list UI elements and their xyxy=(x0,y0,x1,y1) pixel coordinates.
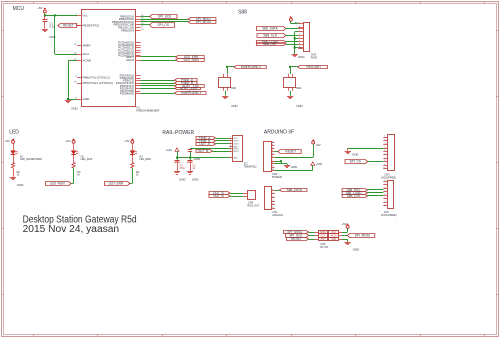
svg-text:GND: GND xyxy=(71,107,77,111)
ground at CN3 xyxy=(345,152,359,157)
svg-text:+VIN: +VIN xyxy=(316,162,323,166)
net flag SPI_MOSI xyxy=(141,20,216,24)
svg-text:6: 6 xyxy=(272,156,273,158)
svg-text:POWER: POWER xyxy=(272,175,282,179)
net flag ADPT_RXD xyxy=(141,87,201,91)
wire gnd to CN3 xyxy=(348,148,384,151)
net flag S88_CLK at CN7 xyxy=(342,194,383,198)
svg-text:Vcc: Vcc xyxy=(83,13,89,17)
svg-text:GND: GND xyxy=(83,97,91,101)
svg-text:ATMEGA48/88/168P: ATMEGA48/88/168P xyxy=(136,110,159,113)
svg-text:GND: GND xyxy=(353,248,359,252)
wire S88 ground bus xyxy=(295,32,299,55)
svg-text:RESET: RESET xyxy=(291,237,302,241)
connector CN5 ISP 6P header xyxy=(315,231,342,250)
svg-text:GND: GND xyxy=(231,104,237,108)
svg-text:PB6(XTAL1/TOSC1): PB6(XTAL1/TOSC1) xyxy=(83,76,110,80)
wire CN2 gnd xyxy=(275,160,288,165)
svg-text:LED_MAINPOWER: LED_MAINPOWER xyxy=(20,158,42,161)
svg-text:OUT_A: OUT_A xyxy=(199,142,211,146)
net flag RESET at CN5 xyxy=(287,237,315,241)
svg-text:VCC: VCC xyxy=(233,138,238,140)
svg-text:7: 7 xyxy=(230,156,231,158)
+12V supply xyxy=(165,148,179,152)
net flag OUT_A at IC2 xyxy=(196,142,230,146)
svg-text:S88_DATA: S88_DATA xyxy=(287,188,303,192)
svg-text:LED_RUN: LED_RUN xyxy=(81,158,93,161)
svg-text:1: 1 xyxy=(272,142,273,144)
svg-text:GND: GND xyxy=(296,104,302,108)
GND label on rail xyxy=(194,157,200,161)
svg-text:3: 3 xyxy=(272,196,273,198)
svg-text:PB0(ICP): PB0(ICP) xyxy=(121,28,134,32)
svg-text:9: 9 xyxy=(384,164,385,166)
net flag ADPT_TXD xyxy=(141,84,205,88)
ground at CN2 xyxy=(284,165,298,169)
svg-text:4: 4 xyxy=(384,147,385,149)
node junction rail a xyxy=(176,157,178,159)
wire IC2 gnd pin down xyxy=(190,148,230,149)
net flag SPI_SCK xyxy=(141,15,177,19)
LED D3 chain with resistor R4 and net flag LED_ERR xyxy=(104,138,151,185)
section title RAIL-POWER xyxy=(162,130,194,136)
svg-text:RESET/PC6: RESET/PC6 xyxy=(83,24,100,28)
section title S88 xyxy=(238,10,247,16)
svg-text:SPI_CS: SPI_CS xyxy=(158,23,169,27)
net flag SPI_CS at CN3 xyxy=(345,160,383,164)
svg-text:ADPT_RXD: ADPT_RXD xyxy=(180,87,198,91)
svg-text:2: 2 xyxy=(272,193,273,195)
svg-text:RAIL-OUT: RAIL-OUT xyxy=(247,204,260,208)
svg-text:+5V: +5V xyxy=(124,139,129,143)
net flag S88_CLK xyxy=(257,34,298,38)
svg-text:2: 2 xyxy=(230,140,231,142)
svg-text:+12V: +12V xyxy=(165,148,172,152)
svg-text:2: 2 xyxy=(272,145,273,147)
svg-text:AGND: AGND xyxy=(83,59,93,63)
svg-text:RESTART: RESTART xyxy=(306,65,321,69)
svg-text:GND: GND xyxy=(194,157,200,161)
svg-text:OUT_B: OUT_B xyxy=(198,149,209,153)
svg-text:2: 2 xyxy=(384,184,385,186)
svg-text:0.1u: 0.1u xyxy=(50,24,56,28)
svg-text:3: 3 xyxy=(230,142,231,144)
svg-text:GND: GND xyxy=(192,178,198,182)
net flag OUT_B at IC2 xyxy=(196,149,230,153)
ground at CN4 xyxy=(292,55,305,60)
svg-text:OUT2: OUT2 xyxy=(233,144,239,146)
svg-text:6P-CN: 6P-CN xyxy=(320,245,328,249)
ground at CN5 xyxy=(344,243,359,252)
net flag OUT_A at CN6 xyxy=(209,191,243,195)
svg-text:+5V: +5V xyxy=(5,139,10,143)
svg-text:6: 6 xyxy=(384,198,385,200)
title text line 2 xyxy=(23,224,120,235)
svg-text:OUT3: OUT3 xyxy=(233,148,239,150)
svg-text:LED: LED xyxy=(9,130,19,136)
svg-text:PD0(RXD): PD0(RXD) xyxy=(120,92,134,96)
svg-text:1: 1 xyxy=(384,136,385,138)
IC1 right pins PD group xyxy=(116,73,141,95)
svg-text:1: 1 xyxy=(230,137,231,139)
svg-text:GND: GND xyxy=(352,152,358,156)
net flag SPI_SCK at CN5 xyxy=(286,234,315,238)
capacitor C3 xyxy=(188,150,192,158)
svg-text:RJ45: RJ45 xyxy=(311,55,318,59)
net flag S88_DATA xyxy=(256,27,298,31)
svg-text:RST: RST xyxy=(321,238,326,241)
capacitor C1 xyxy=(42,15,55,28)
svg-text:6: 6 xyxy=(299,37,300,39)
svg-text:1: 1 xyxy=(384,180,385,182)
svg-text:ANALOG: ANALOG xyxy=(272,213,283,217)
wire +12V rail xyxy=(177,151,230,157)
net flag SPI_MOSI at CN5 xyxy=(342,234,375,238)
svg-text:PB7(XTAL2 w/TOSC2): PB7(XTAL2 w/TOSC2) xyxy=(83,81,113,85)
svg-text:6: 6 xyxy=(230,150,231,152)
svg-text:SW3: SW3 xyxy=(231,87,237,90)
svg-text:7: 7 xyxy=(299,40,300,42)
section title MCU xyxy=(13,6,25,12)
svg-text:SPI_MOSI: SPI_MOSI xyxy=(196,20,211,24)
net flag PWM_A at IC1 xyxy=(141,78,197,82)
svg-text:ADC6: ADC6 xyxy=(126,58,134,62)
op-amp U1 body (IC1 ATMEGA48/88/168 main box) xyxy=(82,10,136,107)
svg-text:470u: 470u xyxy=(179,167,185,170)
svg-text:LED_ERR: LED_ERR xyxy=(109,182,124,186)
node junction S88 gnd bus xyxy=(294,37,296,48)
svg-text:GND: GND xyxy=(17,183,23,187)
net flag OUT_B at CN6 xyxy=(209,194,243,198)
connector CN1 ANALOG xyxy=(265,187,284,217)
net flag PWM_B at IC2 xyxy=(196,139,230,143)
net flag EMERGENCY at IC1 xyxy=(141,91,206,95)
net flag S88_DATA at CN1 xyxy=(275,188,307,192)
svg-text:5: 5 xyxy=(299,34,300,36)
svg-text:DIO(UPPER): DIO(UPPER) xyxy=(381,176,396,179)
svg-text:S88_CLK: S88_CLK xyxy=(263,34,278,38)
svg-text:OUT1: OUT1 xyxy=(233,141,239,143)
svg-text:8: 8 xyxy=(384,160,385,162)
svg-text:EMERGENCY: EMERGENCY xyxy=(181,91,202,95)
op-amp U2 motor driver IC2 TB6643KQ xyxy=(230,136,257,169)
ground below IC1 xyxy=(65,101,78,111)
net flag PWM_A at IC2 xyxy=(196,136,230,140)
svg-text:5: 5 xyxy=(272,153,273,155)
svg-text:1: 1 xyxy=(272,189,273,191)
wire +5V to CN4 pin1 xyxy=(291,21,299,23)
capacitor C5 1u xyxy=(187,158,199,182)
wire AGND to GND xyxy=(68,61,77,100)
svg-text:7: 7 xyxy=(384,201,385,203)
net flag RESET at IC1 xyxy=(58,24,81,28)
svg-text:+5V: +5V xyxy=(315,143,320,147)
svg-text:MCU: MCU xyxy=(13,6,25,12)
connector CN2 POWER xyxy=(264,142,282,179)
svg-text:S88: S88 xyxy=(238,10,247,16)
svg-text:GND: GND xyxy=(298,55,304,59)
svg-text:5: 5 xyxy=(272,204,273,206)
svg-text:10: 10 xyxy=(383,168,385,170)
svg-text:10: 10 xyxy=(299,48,301,50)
switch SW3 EMERGENCY xyxy=(219,65,267,108)
svg-text:AREF: AREF xyxy=(83,44,91,48)
svg-text:AVcc: AVcc xyxy=(83,52,90,56)
LED D2 chain with resistor R3 and net flag LED_RUN xyxy=(46,138,93,185)
svg-text:SW4: SW4 xyxy=(296,87,302,90)
svg-text:9: 9 xyxy=(272,166,273,168)
+VIN supply xyxy=(311,162,322,166)
net flag S88_RST at CN7 xyxy=(342,188,383,192)
wire +VIN to CN2 xyxy=(275,165,313,170)
svg-text:GND: GND xyxy=(179,178,185,182)
svg-text:TB6643KQ: TB6643KQ xyxy=(244,165,257,169)
net flag RESET at CN2 xyxy=(275,150,302,154)
svg-text:+5V: +5V xyxy=(341,222,346,226)
svg-text:S88_DATA: S88_DATA xyxy=(262,27,278,31)
svg-text:8: 8 xyxy=(384,205,385,207)
+5V supply at CN5 xyxy=(341,222,349,233)
svg-text:2: 2 xyxy=(384,139,385,141)
IC1 reference label xyxy=(136,107,159,113)
+5V supply at S88 xyxy=(289,16,298,25)
svg-text:GND: GND xyxy=(291,165,297,169)
net flag S88_LOAD at CN7 xyxy=(342,191,383,195)
svg-text:8: 8 xyxy=(299,43,300,45)
wire +5V to Vcc pin xyxy=(45,13,78,15)
svg-text:LED_RUN: LED_RUN xyxy=(50,182,66,186)
svg-text:7: 7 xyxy=(384,157,385,159)
svg-text:3: 3 xyxy=(299,27,300,29)
switch SW4 RESTART xyxy=(284,65,328,108)
net flag S88_RST xyxy=(256,42,298,46)
connector CN4 RJ45 xyxy=(298,22,317,59)
IC1 left pins with names xyxy=(74,13,113,101)
svg-text:5: 5 xyxy=(384,150,385,152)
svg-text:RESET: RESET xyxy=(285,150,296,154)
svg-text:GND: GND xyxy=(49,35,55,39)
section title ARDUINO I/F xyxy=(264,130,294,136)
connector CN7 DIO(LOWER) xyxy=(381,180,396,217)
svg-text:4: 4 xyxy=(299,31,300,33)
net flag SPI_CS xyxy=(141,23,175,28)
svg-text:GND: GND xyxy=(331,238,337,241)
net flag PWM_B at IC1 xyxy=(141,81,197,85)
svg-text:+5V: +5V xyxy=(37,6,42,10)
wire CN5 gnd xyxy=(342,239,348,242)
IC1 right pins PC group xyxy=(118,41,140,63)
svg-text:5: 5 xyxy=(384,194,385,196)
svg-text:SPI_MOSI: SPI_MOSI xyxy=(355,234,370,238)
wire +5V to CN2 xyxy=(275,144,314,157)
ground below C1 xyxy=(42,30,56,40)
connector CN3 DIO(UPPER) xyxy=(381,135,396,180)
svg-text:LED_RUN: LED_RUN xyxy=(184,58,200,62)
svg-text:10: 10 xyxy=(272,169,274,171)
svg-text:3: 3 xyxy=(384,187,385,189)
svg-text:8: 8 xyxy=(272,163,273,165)
svg-text:SPI_CS: SPI_CS xyxy=(349,160,360,164)
svg-text:ARDUINO I/F: ARDUINO I/F xyxy=(264,130,294,136)
net flag LED_RUN xyxy=(141,58,205,62)
net flag LED_ERR xyxy=(141,55,205,59)
net flag SPI_MISO at CN5 xyxy=(283,230,314,234)
svg-text:4: 4 xyxy=(272,200,273,202)
svg-text:OUT_B: OUT_B xyxy=(213,194,224,198)
svg-text:S88_CLK: S88_CLK xyxy=(347,194,362,198)
svg-text:GND: GND xyxy=(233,158,238,160)
title text line 1 xyxy=(23,214,137,225)
net flag SPI_MISO xyxy=(141,17,216,21)
svg-text:RAIL-POWER: RAIL-POWER xyxy=(162,130,194,136)
LED D1 chain with resistor R2 xyxy=(5,138,42,187)
capacitor C4 470u xyxy=(174,158,186,182)
svg-text:SPI_SCK: SPI_SCK xyxy=(158,15,172,19)
svg-text:5: 5 xyxy=(230,147,231,149)
svg-text:3: 3 xyxy=(272,147,273,149)
wire to AVcc xyxy=(55,15,78,54)
svg-text:OUT4: OUT4 xyxy=(233,151,239,153)
svg-text:6: 6 xyxy=(384,153,385,155)
section title LED xyxy=(9,130,19,136)
+5V supply at CN2 xyxy=(312,139,321,147)
node junction AGND/GND xyxy=(67,98,69,100)
svg-text:1: 1 xyxy=(299,22,300,24)
IC1 right pins PB group xyxy=(112,14,145,32)
node junction Vcc xyxy=(44,14,56,16)
svg-text:2015 Nov 24, yaasan: 2015 Nov 24, yaasan xyxy=(23,224,120,235)
svg-text:4: 4 xyxy=(384,191,385,193)
svg-text:6: 6 xyxy=(272,207,273,209)
svg-text:EMERGENCY: EMERGENCY xyxy=(241,65,262,69)
svg-text:S88_RST: S88_RST xyxy=(263,42,277,46)
net flag S88_LOAD xyxy=(256,40,298,44)
svg-text:4: 4 xyxy=(272,150,273,152)
svg-text:LED_ERR: LED_ERR xyxy=(139,158,151,161)
svg-text:+5V: +5V xyxy=(65,139,70,143)
connector CN6 RAIL-OUT xyxy=(243,191,260,208)
svg-text:DIO(LOWER): DIO(LOWER) xyxy=(381,214,396,217)
svg-text:RESET: RESET xyxy=(63,24,74,28)
+5V supply at IC1 xyxy=(37,6,46,13)
node junction rail b xyxy=(189,157,191,159)
svg-text:3: 3 xyxy=(384,143,385,145)
